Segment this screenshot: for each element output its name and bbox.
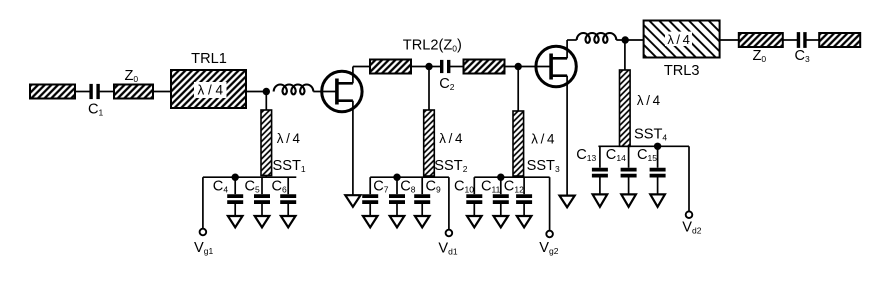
junction C8	[393, 174, 400, 181]
wire to Vd2	[688, 146, 690, 211]
node C	[622, 36, 629, 43]
svg-text:TRL3: TRL3	[664, 63, 700, 79]
ground	[467, 216, 482, 227]
capacitor C3	[798, 32, 805, 48]
ground	[228, 216, 243, 227]
svg-text:SST2: SST2	[434, 158, 467, 174]
wire	[449, 66, 464, 68]
node A	[425, 63, 432, 70]
wire	[720, 39, 739, 41]
node after TRL1	[263, 88, 270, 95]
wire SST1 to row	[265, 176, 267, 178]
wire	[246, 91, 267, 93]
wire SST3 to row	[518, 176, 521, 177]
svg-text:λ / 4: λ / 4	[198, 83, 224, 98]
input microstrip line	[30, 85, 75, 99]
transistor Q2	[536, 46, 576, 86]
wire to Vg1	[202, 177, 204, 228]
wire node to SST1	[265, 92, 267, 111]
junction C11	[497, 174, 504, 181]
capacitor C11	[493, 177, 509, 216]
junction C4	[232, 174, 239, 181]
ground	[517, 216, 532, 227]
inductor L2	[577, 33, 617, 43]
ground	[255, 216, 270, 227]
wire Q2 drain up	[566, 40, 568, 58]
wire node C to SST4	[624, 40, 626, 70]
svg-text:λ / 4: λ / 4	[637, 93, 661, 108]
terminal Vg2	[546, 231, 553, 238]
ground	[593, 194, 608, 206]
ground	[494, 216, 509, 227]
wire Q1 drain up	[352, 67, 354, 84]
svg-text:λ / 4: λ / 4	[277, 131, 301, 146]
svg-text:λ / 4: λ / 4	[531, 132, 555, 147]
ground	[390, 216, 405, 227]
wire Q2 source down	[566, 76, 568, 196]
wire to Q2 gate	[505, 66, 552, 68]
microstrip Z0 output	[739, 33, 783, 47]
terminal Vg1	[200, 229, 207, 236]
ground	[621, 194, 636, 206]
capacitor C7	[362, 177, 378, 216]
wire to Vd1	[448, 177, 450, 229]
junction C15	[654, 143, 661, 150]
wire	[567, 39, 577, 41]
svg-text:λ / 4: λ / 4	[439, 131, 463, 146]
ground Q2 source	[560, 196, 575, 208]
transmission line TRL3	[644, 21, 720, 58]
wire SST2 to row	[427, 176, 429, 177]
capacitor C4	[227, 177, 243, 216]
inductor L1	[274, 84, 314, 94]
ground Q1 source	[345, 195, 360, 207]
capacitor C13	[592, 146, 608, 194]
svg-text:TRL1: TRL1	[191, 51, 227, 67]
svg-text:SST3: SST3	[527, 158, 560, 174]
bias row 4	[598, 145, 689, 147]
wire	[783, 39, 799, 41]
wire	[153, 91, 171, 93]
capacitor C5	[254, 177, 270, 216]
transistor Q1	[322, 71, 362, 111]
wire	[805, 39, 819, 41]
wire node B to SST3	[517, 67, 519, 112]
terminal Vd2	[686, 211, 693, 218]
bias row 2	[370, 176, 449, 178]
wire to Q1 gate	[313, 91, 337, 93]
wire	[353, 66, 370, 68]
wire	[616, 39, 643, 41]
bias row 3	[474, 176, 549, 178]
transmission line TRL1	[171, 70, 246, 108]
terminal Vd1	[446, 230, 453, 237]
capacitor C1	[91, 84, 98, 99]
capacitor C12	[516, 177, 532, 216]
capacitor C8	[389, 177, 405, 216]
capacitor C2	[442, 60, 449, 73]
svg-text:λ / 4: λ / 4	[667, 32, 690, 47]
output microstrip line	[819, 33, 860, 47]
ground	[415, 216, 430, 227]
bias row 1	[203, 176, 296, 178]
ground	[650, 194, 665, 206]
svg-text:SST4: SST4	[634, 127, 667, 143]
capacitor C14	[621, 146, 637, 194]
wire	[75, 91, 90, 93]
stub SST2	[424, 110, 435, 176]
capacitor C6	[280, 177, 296, 216]
wire to Vg2	[549, 177, 551, 230]
capacitor C10	[466, 177, 482, 216]
capacitor C9	[414, 177, 430, 216]
stub SST4	[620, 70, 631, 146]
capacitor C15	[650, 146, 666, 194]
microstrip TRL2 first half	[370, 60, 411, 74]
wire Q1 source down	[352, 101, 354, 196]
stub SST1	[261, 110, 272, 176]
wire	[429, 66, 443, 68]
stub SST3	[513, 111, 524, 176]
wire	[100, 91, 114, 93]
wire	[411, 66, 429, 68]
ground	[281, 216, 296, 227]
wire node A to SST2	[428, 67, 430, 111]
microstrip TRL2 second half	[464, 60, 505, 74]
node B	[515, 63, 522, 70]
ground	[363, 216, 378, 227]
svg-text:SST1: SST1	[273, 158, 306, 174]
microstrip Z0	[114, 85, 153, 99]
